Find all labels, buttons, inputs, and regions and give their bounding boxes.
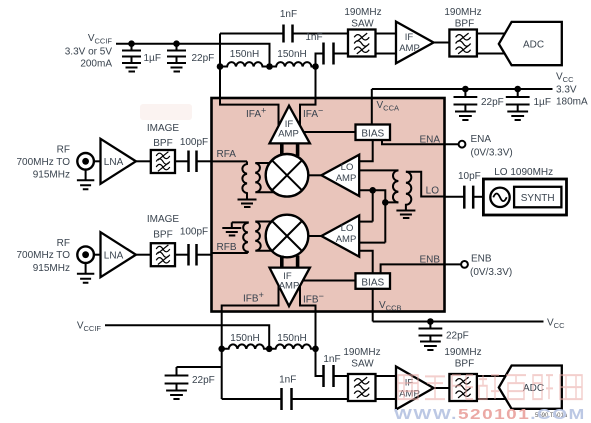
- junction dot L3 left: [218, 346, 225, 353]
- ADC U2 (top): [499, 22, 562, 65]
- wire IFB+ internal jog: [222, 285, 279, 312]
- wire IFA+ column left: [219, 34, 221, 99]
- svg-text:1nF: 1nF: [279, 375, 296, 386]
- pin label IFA+: [246, 106, 266, 121]
- synthesizer U3 LO 1090MHz: [483, 167, 566, 215]
- svg-text:1nF: 1nF: [305, 32, 322, 43]
- wire A5 to BIAS1: [304, 131, 356, 133]
- capacitor C12 1nF (series lower): [279, 375, 296, 411]
- svg-text:10pF: 10pF: [458, 171, 481, 182]
- op-amp LNA2: [101, 232, 136, 277]
- wire VCCIF rail bottom: [105, 325, 269, 349]
- junction dot L4 right: [312, 346, 319, 353]
- SAW filter FL1 190MHz: [344, 7, 381, 57]
- wire mixer M2 to A6 bar left: [280, 256, 284, 269]
- wire IFB+ column bottom: [221, 312, 223, 400]
- op-amp A5 IF AMP channel A (points up): [270, 106, 310, 144]
- ground T3 secondary: [396, 207, 415, 218]
- wire IFB- to C11: [316, 349, 324, 376]
- svg-text:150nH: 150nH: [230, 333, 259, 344]
- svg-text:RFA: RFA: [217, 149, 237, 160]
- wire C9 to RFB: [197, 254, 212, 256]
- node VCC (right supply label): [556, 72, 588, 108]
- svg-text:3.3V or 5V: 3.3V or 5V: [65, 47, 113, 58]
- transformer T1 primary (RFA): [242, 161, 247, 196]
- transformer T2 primary (RFB): [232, 222, 248, 253]
- pin label IFB-: [303, 291, 324, 306]
- node VCCB pin label: [379, 300, 402, 313]
- svg-text:LO: LO: [341, 162, 354, 173]
- BPF FL3 IMAGE (channel A): [147, 123, 180, 173]
- BPF FL2 190MHz: [444, 7, 481, 57]
- wire 22pF tap bottom: [177, 366, 222, 368]
- svg-text:22pF: 22pF: [192, 375, 215, 386]
- svg-text:1nF: 1nF: [280, 9, 297, 20]
- wire IFB+ bottom feed: [222, 398, 282, 400]
- ground below C5: [455, 112, 476, 121]
- pin label RFB: [217, 242, 237, 253]
- svg-text:BPF: BPF: [455, 359, 474, 370]
- wire FL5 to A2 top: [376, 375, 397, 377]
- svg-text:(0V/3.3V): (0V/3.3V): [470, 267, 512, 278]
- transformer T3 secondary (LO): [406, 172, 411, 207]
- junction dot VCCIF-C2: [173, 40, 180, 47]
- svg-text:150nH: 150nH: [277, 49, 306, 60]
- wire mixer M1 to A5 bar left: [280, 143, 284, 156]
- wire VCC rail bottom: [373, 321, 544, 323]
- svg-text:190MHz: 190MHz: [343, 347, 380, 358]
- capacitor C10 22pF (bottom): [165, 367, 215, 391]
- svg-text:3.3V: 3.3V: [556, 85, 577, 96]
- svg-text:(0V/3.3V): (0V/3.3V): [471, 148, 513, 159]
- svg-text:200mA: 200mA: [80, 59, 112, 70]
- capacitor C3 1nF (top series): [280, 9, 297, 43]
- transformer T3 primary (LO): [393, 170, 398, 202]
- svg-text:100pF: 100pF: [180, 137, 208, 148]
- op-amp A8 LO AMP channel B (points left): [321, 215, 359, 256]
- BPF FL6 190MHz (bottom): [444, 347, 481, 401]
- junction dot L1 left: [217, 63, 224, 70]
- wire mixer M2 to A6 bar right: [296, 256, 300, 269]
- wire VCCB column: [372, 289, 374, 322]
- wire ENA internal: [382, 140, 459, 144]
- capacitor C11 1nF (series upper): [323, 354, 340, 387]
- wire FL5 to A2 bottom: [376, 398, 397, 400]
- svg-text:190MHz: 190MHz: [444, 7, 481, 18]
- wire LNA2 to FL4: [136, 254, 151, 256]
- wire C3 to SAW: [293, 33, 349, 35]
- wire FL1 to A1 bottom: [376, 53, 397, 55]
- inductor L2 150nH: [270, 49, 317, 67]
- svg-text:180mA: 180mA: [556, 97, 588, 108]
- connector J2 RF input B: [16, 238, 93, 274]
- wire A8 upper in: [359, 221, 373, 223]
- wire J2 to LNA2: [94, 254, 101, 256]
- svg-text:700MHz TO: 700MHz TO: [16, 157, 70, 168]
- wire C11 to FL5: [334, 375, 349, 377]
- ground T2 primary: [222, 222, 241, 235]
- wire LO bus vertical 2: [384, 202, 386, 242]
- wire BIAS1 to A7: [359, 140, 373, 161]
- svg-text:RF: RF: [57, 145, 70, 156]
- op-amp A1 IF AMP (top chain): [396, 22, 434, 64]
- pin label LO: [426, 186, 440, 197]
- svg-text:RFB: RFB: [217, 242, 237, 253]
- svg-text:ENA: ENA: [419, 135, 440, 146]
- svg-text:AMP: AMP: [336, 234, 357, 245]
- op-amp A7 LO AMP channel A (points left): [321, 155, 359, 196]
- svg-text:22pF: 22pF: [192, 53, 215, 64]
- wire A1 to FL2: [434, 42, 450, 44]
- wire J1 to LNA1: [94, 160, 101, 162]
- pin label RFA: [217, 149, 237, 160]
- svg-text:BPF: BPF: [153, 230, 172, 241]
- wire LO external: [445, 196, 465, 198]
- transformer T2 secondary: [255, 222, 274, 251]
- ground below J2: [77, 263, 94, 283]
- svg-text:SYNTH: SYNTH: [521, 193, 555, 204]
- svg-text:BPF: BPF: [153, 138, 172, 149]
- watermark red characters: [398, 375, 582, 399]
- svg-text:WWW.520101.COM: WWW.520101.COM: [394, 406, 586, 423]
- svg-text:ENB: ENB: [419, 255, 440, 266]
- capacitor C5 22pF: [454, 89, 504, 112]
- ghost watermark smudge: [140, 104, 192, 120]
- svg-text:BPF: BPF: [455, 19, 474, 30]
- svg-text:AMP: AMP: [279, 281, 300, 292]
- wire VCCIF rail top: [116, 44, 270, 67]
- junction dot VCCIF-C1: [128, 40, 135, 47]
- svg-text:BIAS: BIAS: [361, 129, 384, 140]
- svg-text:150nH: 150nH: [230, 49, 259, 60]
- svg-text:AMP: AMP: [278, 129, 299, 140]
- op-amp LNA1: [101, 139, 136, 184]
- label 5590 TA01a: [535, 413, 568, 419]
- wire FL2 to ADC top: [477, 33, 507, 35]
- BPF FL4 IMAGE (channel B): [147, 214, 180, 266]
- wire IFA- column right: [315, 67, 317, 99]
- svg-text:1µF: 1µF: [534, 97, 551, 108]
- svg-text:100pF: 100pF: [180, 227, 208, 238]
- svg-text:SAW: SAW: [351, 359, 374, 370]
- svg-text:1µF: 1µF: [144, 53, 161, 64]
- wire IFA+ top feed: [220, 33, 284, 35]
- wire mixer M2 to LO amp B: [308, 235, 321, 237]
- wire IFA+ internal jog: [220, 98, 279, 126]
- terminal ENA: [459, 134, 513, 159]
- capacitor C9 100pF (channel B): [180, 227, 208, 266]
- mixer M2 channel B: [266, 215, 309, 258]
- wire FL3 to C8: [175, 160, 189, 162]
- wire IFB- internal jog: [300, 285, 316, 312]
- wire A2 to FL6: [434, 387, 450, 389]
- pin label ENA (inside): [419, 135, 440, 146]
- wire RFA internal: [212, 160, 248, 162]
- wire RFB internal: [212, 252, 248, 254]
- op-amp A2 IF AMP (bottom chain): [396, 367, 434, 410]
- wire C12 to FL5: [292, 398, 349, 400]
- inductor L3 150nH: [222, 333, 269, 349]
- terminal ENB: [461, 254, 512, 279]
- node VCCIF (top supply label): [65, 33, 113, 70]
- svg-text:IF: IF: [405, 32, 414, 43]
- svg-text:AMP: AMP: [336, 173, 357, 184]
- wire LO bus vertical 1: [372, 190, 374, 221]
- svg-text:ENA: ENA: [471, 134, 492, 145]
- junction dot VCC-C5: [462, 86, 469, 93]
- svg-text:LNA: LNA: [104, 157, 124, 168]
- junction dot L2 right: [312, 63, 319, 70]
- capacitor C4 1nF (series): [305, 32, 333, 65]
- svg-text:22pF: 22pF: [481, 97, 504, 108]
- node VCC (bottom right label): [547, 318, 565, 331]
- ground T1 primary: [238, 196, 257, 207]
- capacitor C2 22pF: [167, 44, 214, 64]
- pin label ENB (inside): [419, 255, 440, 266]
- wire IFA- to C4: [316, 54, 324, 67]
- wire BIAS2 to A8: [359, 251, 373, 273]
- inductor L4 150nH: [269, 333, 315, 349]
- wire FL6 to ADC bottom-bottom: [477, 398, 507, 400]
- SAW filter FL5 190MHz (bottom): [343, 347, 380, 401]
- wire FL4 to C9: [175, 254, 189, 256]
- wire A7 lower out: [359, 190, 398, 202]
- wire IFA- internal jog: [300, 98, 316, 126]
- junction dot LO bus lower: [382, 199, 389, 206]
- svg-text:LO 1090MHz: LO 1090MHz: [494, 167, 553, 178]
- junction dot L1-L2 center: [266, 63, 273, 70]
- junction dot L3-L4 center: [266, 346, 273, 353]
- wire FL2 to ADC bottom: [477, 53, 507, 55]
- junction dot LO bus upper: [369, 187, 376, 194]
- wire A8 lower in: [359, 242, 385, 244]
- node VCCA pin label: [377, 100, 400, 113]
- wire C7 to SYNTH: [473, 196, 483, 198]
- wire mixer M1 to LO amp A: [308, 174, 321, 176]
- svg-text:915MHz: 915MHz: [33, 263, 70, 274]
- mixer M1 channel A: [266, 154, 309, 197]
- svg-text:LO: LO: [426, 186, 440, 197]
- svg-text:700MHz TO: 700MHz TO: [16, 250, 70, 261]
- svg-text:LNA: LNA: [104, 251, 124, 262]
- svg-text:22pF: 22pF: [446, 331, 469, 342]
- wire A6 to BIAS2: [304, 280, 356, 282]
- svg-text:AMP: AMP: [399, 43, 420, 54]
- capacitor C7 10pF: [458, 171, 481, 209]
- ground below C13: [420, 342, 441, 351]
- wire ENB internal: [381, 264, 461, 273]
- wire VCC rail top: [372, 88, 553, 90]
- capacitor C6 1uF: [506, 89, 551, 112]
- svg-text:SAW: SAW: [351, 19, 374, 30]
- connector J1 RF input A: [16, 145, 93, 181]
- inductor L1 150nH: [220, 49, 270, 67]
- wire mixer M1 to A5 bar right: [296, 143, 300, 156]
- wire FL6 to ADC bottom-top: [477, 375, 507, 377]
- junction dot VCC-C6: [514, 86, 521, 93]
- watermark blue URL: [394, 406, 586, 423]
- svg-text:150nH: 150nH: [277, 333, 306, 344]
- wire IFB- column bottom: [315, 312, 317, 349]
- capacitor C13 22pF (VCC bottom): [419, 322, 469, 342]
- wire LNA1 to FL3: [136, 160, 151, 162]
- BIAS1 block: [356, 125, 391, 141]
- svg-text:IMAGE: IMAGE: [147, 214, 180, 225]
- svg-text:ADC: ADC: [523, 40, 544, 51]
- svg-text:BIAS: BIAS: [361, 277, 384, 288]
- wire C4 to SAW: [334, 53, 349, 55]
- op-amp A6 IF AMP channel B (points down): [270, 268, 310, 307]
- svg-text:190MHz: 190MHz: [444, 347, 481, 358]
- svg-text:ENB: ENB: [471, 254, 492, 265]
- ground below J1: [77, 169, 94, 189]
- svg-text:1nF: 1nF: [323, 354, 340, 365]
- ground below C1: [122, 62, 141, 72]
- capacitor C8 100pF (channel A): [180, 137, 208, 172]
- ADC U4 (bottom): [499, 366, 562, 409]
- svg-text:RF: RF: [57, 238, 70, 249]
- IC U1 dual mixer body: [212, 98, 445, 312]
- wire T3 secondary to LO pin: [406, 172, 445, 197]
- ground below C6: [507, 112, 528, 121]
- node VCCIF (bottom supply label): [77, 321, 102, 334]
- ground below C10: [166, 391, 187, 400]
- svg-text:915MHz: 915MHz: [33, 170, 70, 181]
- wire C8 to RFA: [197, 160, 212, 162]
- wire VCCA column: [371, 89, 373, 125]
- BIAS2 block: [356, 273, 391, 289]
- capacitor C1 1uF: [122, 44, 161, 64]
- wire A7 upper out to T3: [359, 169, 398, 171]
- transformer T1 secondary: [255, 163, 274, 192]
- ground below C2: [167, 62, 186, 72]
- wire FL1 to A1 top: [376, 33, 397, 35]
- pin label IFB+: [243, 290, 264, 305]
- pin label IFA-: [303, 106, 323, 121]
- svg-text:IMAGE: IMAGE: [147, 123, 180, 134]
- svg-text:LO: LO: [341, 223, 354, 234]
- junction dot VCC-C13: [427, 318, 434, 325]
- svg-text:190MHz: 190MHz: [344, 7, 381, 18]
